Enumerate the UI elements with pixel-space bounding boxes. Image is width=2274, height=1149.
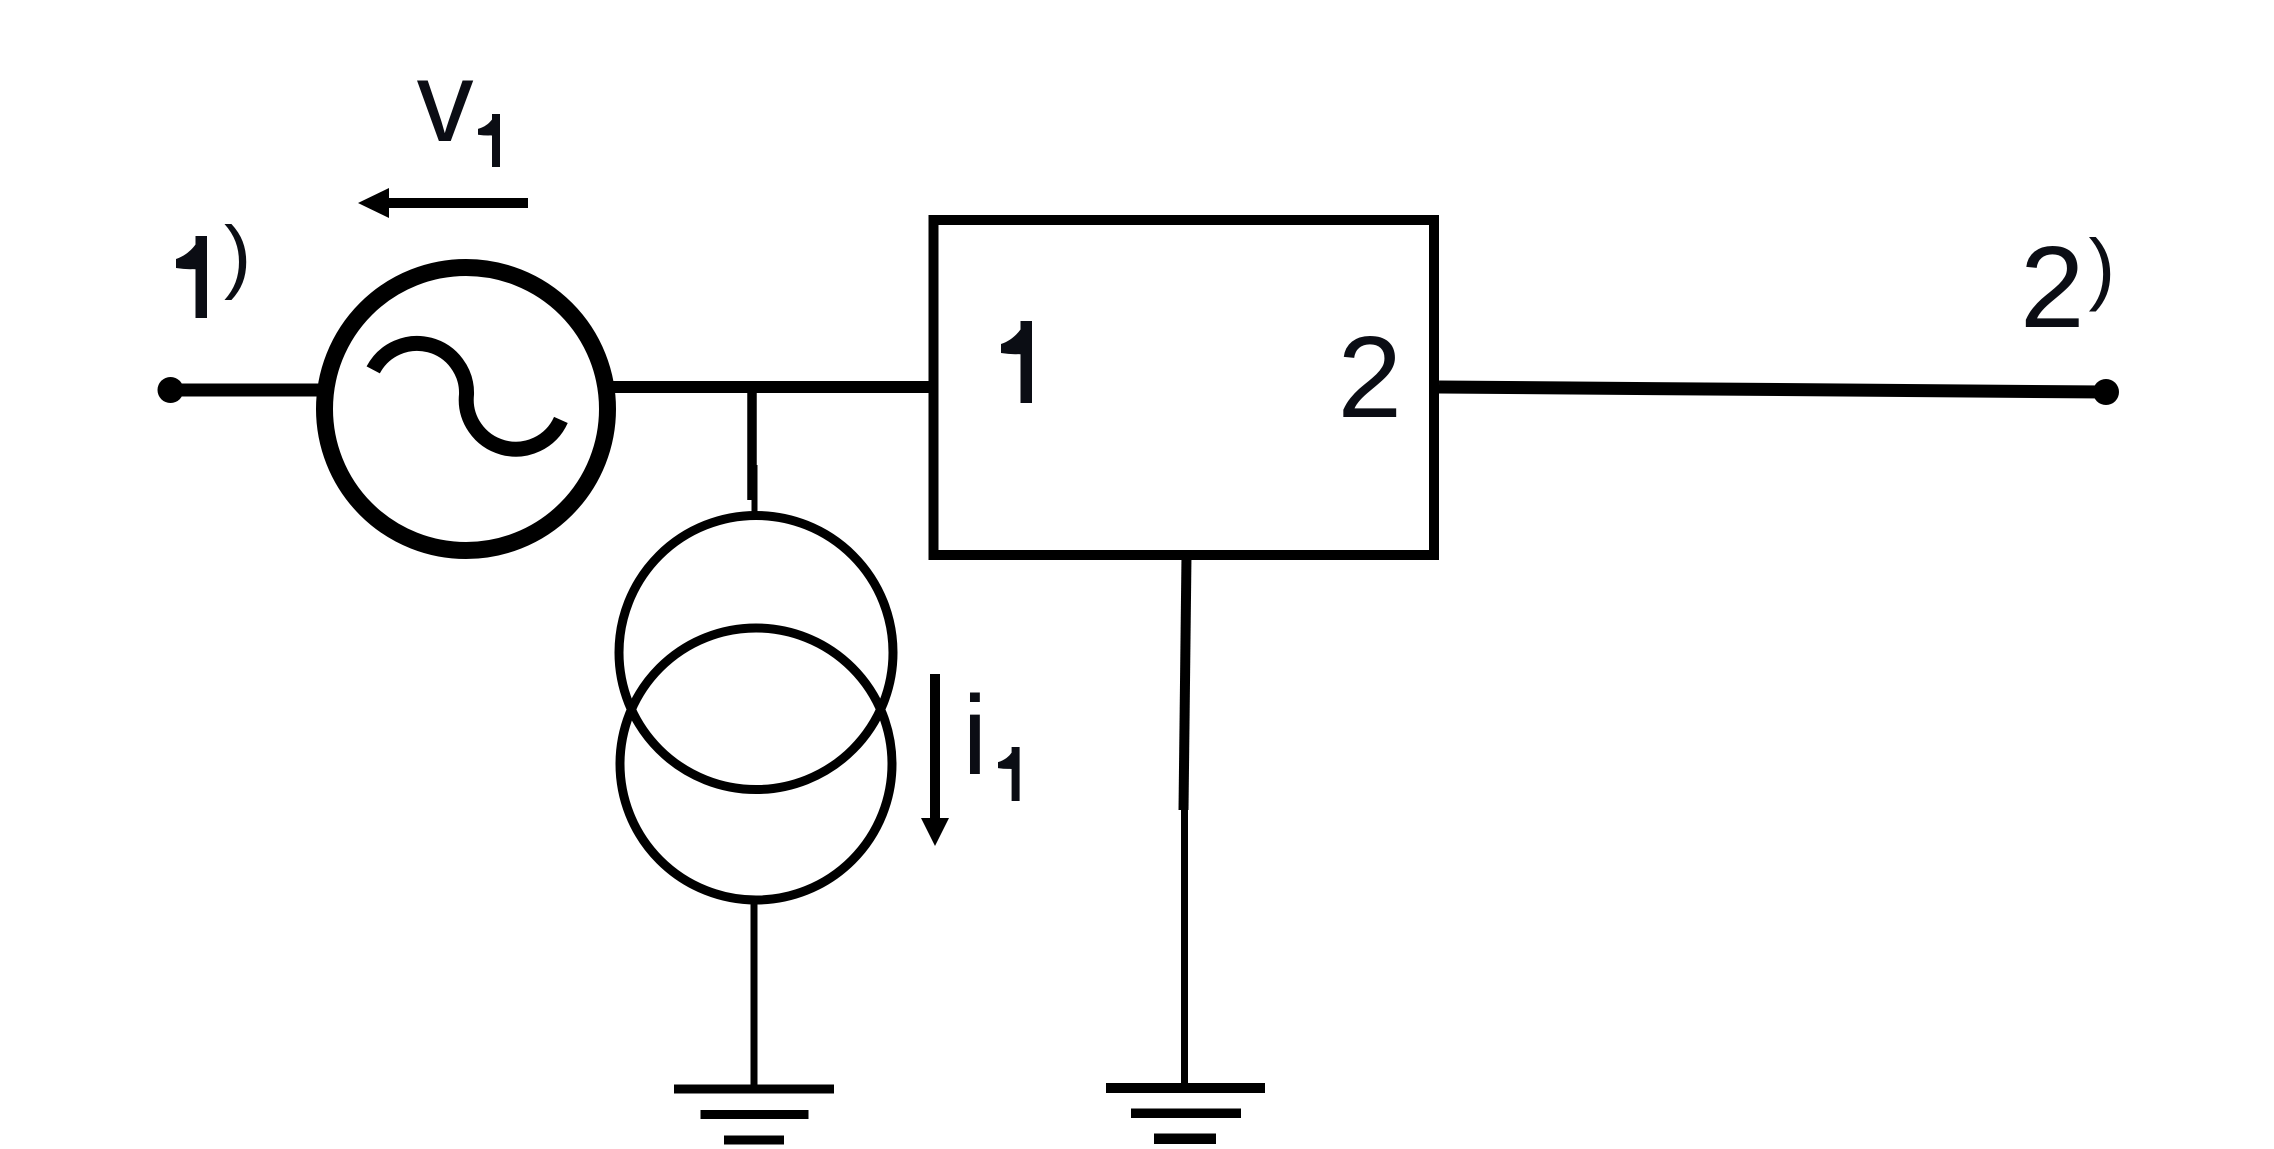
wire current source to ground: [751, 900, 758, 1089]
AC voltage source V1 circle: [325, 268, 608, 551]
label v1: [417, 39, 500, 167]
label 1): [176, 210, 251, 318]
label 2): [2020, 222, 2115, 352]
svg-text:2: 2: [1338, 312, 1403, 442]
sine wave inside AC source: [373, 343, 561, 449]
ground symbol left: [674, 1085, 834, 1145]
current source i1 top circle: [619, 516, 893, 790]
svg-text:2: 2: [2020, 222, 2085, 352]
wire box bottom to ground: [1184, 555, 1187, 1088]
arrow i1 (points down): [921, 674, 949, 846]
wire box to node 2: [1439, 387, 2106, 392]
svg-text:): ): [224, 210, 251, 301]
wire node 1 to AC source: [170, 384, 324, 397]
label i1: [963, 673, 1020, 801]
arrow v1 (points left): [358, 188, 528, 218]
two-port network box: [934, 220, 1435, 555]
svg-text:i: i: [963, 673, 988, 798]
node 2 terminal dot: [2093, 379, 2119, 405]
port label 2: [1338, 312, 1403, 442]
current source i1 bottom circle: [620, 628, 892, 900]
svg-text:): ): [2089, 223, 2116, 312]
port label 1: [1001, 321, 1032, 403]
ground symbol right: [1106, 1083, 1265, 1144]
junction wire down to current source: [752, 390, 755, 513]
svg-text:v: v: [417, 39, 474, 166]
wire AC source to two-port box: [611, 381, 933, 393]
node 1 terminal dot: [158, 377, 184, 403]
